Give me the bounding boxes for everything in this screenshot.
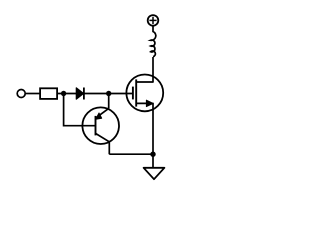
node junction 2 bbox=[106, 91, 111, 96]
diode D1 bbox=[76, 88, 84, 100]
wire input to resistor bbox=[25, 93, 40, 95]
node junction 1 bbox=[61, 91, 66, 96]
wire diode to gate bbox=[84, 93, 133, 95]
transistor Q2 NMOS bbox=[126, 57, 163, 154]
ground bbox=[144, 154, 165, 179]
resistor R1 bbox=[40, 88, 57, 99]
wire collector to ground rail bbox=[109, 153, 153, 155]
transistor Q1 PNP bbox=[82, 107, 119, 154]
supply terminal plus bbox=[148, 15, 159, 26]
wire resistor to diode bbox=[58, 93, 77, 95]
inductor L1 bbox=[151, 26, 156, 57]
wire base L bbox=[64, 94, 96, 126]
node junction 3 bbox=[150, 152, 155, 157]
input terminal bbox=[17, 90, 25, 98]
wire emitter riser bbox=[108, 94, 110, 109]
